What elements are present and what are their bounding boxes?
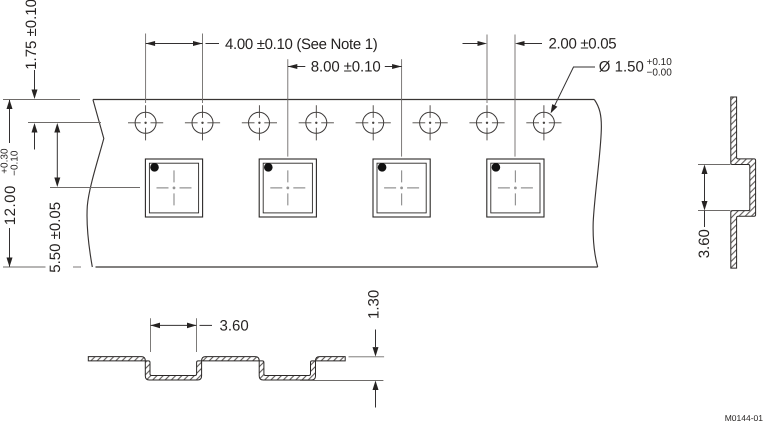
svg-text:Ø 1.50: Ø 1.50 xyxy=(599,59,644,76)
svg-text:1.30: 1.30 xyxy=(366,290,383,319)
svg-text:2.00 ±0.05: 2.00 ±0.05 xyxy=(549,35,617,52)
svg-text:8.00 ±0.10: 8.00 ±0.10 xyxy=(311,58,381,75)
svg-text:3.60: 3.60 xyxy=(696,229,713,258)
svg-text:12.00: 12.00 xyxy=(2,185,19,225)
svg-text:M0144-01: M0144-01 xyxy=(725,413,763,421)
svg-text:3.60: 3.60 xyxy=(220,317,249,334)
svg-text:+0.10: +0.10 xyxy=(647,57,673,68)
svg-text:−0.10: −0.10 xyxy=(10,150,21,176)
svg-text:1.75 ±0.10: 1.75 ±0.10 xyxy=(23,0,40,70)
svg-text:−0.00: −0.00 xyxy=(647,68,673,79)
svg-text:4.00 ±0.10 (See Note 1): 4.00 ±0.10 (See Note 1) xyxy=(225,36,378,53)
svg-text:5.50 ±0.05: 5.50 ±0.05 xyxy=(47,202,64,273)
